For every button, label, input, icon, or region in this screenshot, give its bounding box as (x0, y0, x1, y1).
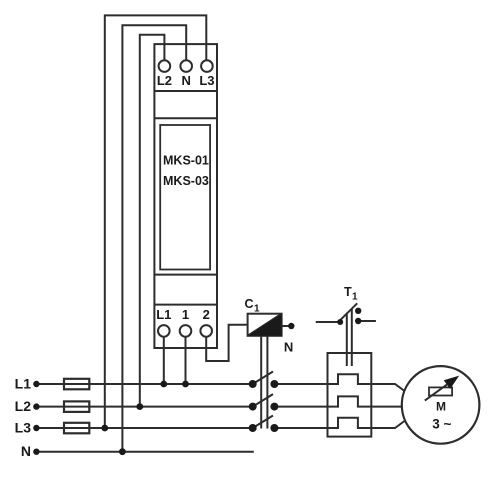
svg-text:1: 1 (254, 304, 260, 315)
svg-text:3 ~: 3 ~ (432, 417, 451, 432)
svg-text:N: N (182, 73, 191, 88)
svg-text:C: C (245, 297, 254, 311)
svg-text:1: 1 (352, 292, 358, 303)
svg-text:L1: L1 (156, 307, 171, 322)
svg-text:N: N (21, 443, 31, 459)
svg-text:L2: L2 (15, 398, 32, 414)
svg-text:L1: L1 (15, 375, 32, 391)
svg-text:L2: L2 (157, 73, 172, 88)
svg-text:M: M (436, 400, 446, 414)
svg-text:N: N (284, 340, 293, 355)
svg-text:L3: L3 (199, 73, 214, 88)
svg-text:2: 2 (203, 307, 210, 322)
svg-text:MKS-03: MKS-03 (163, 174, 209, 188)
svg-text:1: 1 (182, 307, 189, 322)
svg-text:L3: L3 (15, 419, 32, 435)
svg-text:T: T (344, 285, 352, 299)
svg-text:MKS-01: MKS-01 (163, 154, 209, 168)
